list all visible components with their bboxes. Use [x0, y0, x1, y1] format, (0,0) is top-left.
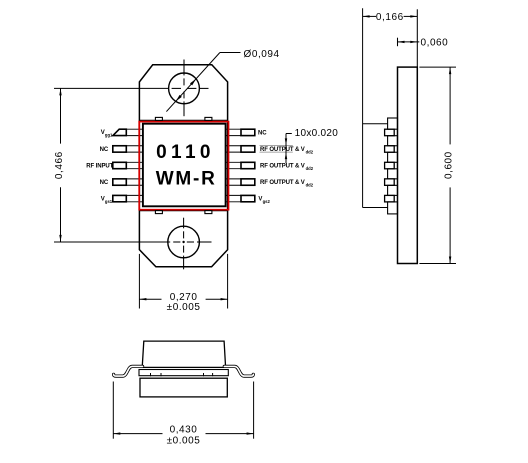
dimension 10x0.020 — [260, 145, 293, 152]
dimension 0,430 — [113, 382, 253, 439]
lid — [143, 124, 226, 207]
svg-text:0,060: 0,060 — [421, 38, 449, 49]
svg-text:0,430: 0,430 — [170, 424, 198, 435]
mounting hole bottom — [54, 218, 212, 270]
lead L1 (pin1, chamfered) — [126, 128, 143, 130]
ceramic sections — [388, 118, 398, 214]
svg-text:NC: NC — [100, 180, 109, 186]
package body outline (octagon flange) — [139, 65, 227, 267]
lid (trapezoid) — [142, 341, 225, 367]
wall ledge top line — [139, 119, 227, 121]
svg-text:gg1: gg1 — [105, 132, 113, 137]
lead R5 — [224, 194, 241, 196]
svg-text:dd2: dd2 — [306, 166, 314, 171]
lead L3 — [126, 161, 143, 163]
flange bottom view — [140, 378, 227, 397]
leads left side L1..L5 — [113, 129, 143, 202]
wall ledge bottom line — [139, 210, 227, 212]
dimension 0,600 — [419, 67, 456, 263]
svg-text:WM-R: WM-R — [156, 168, 217, 189]
svg-text:0110: 0110 — [156, 142, 215, 163]
dimension Ø0,094 leader — [166, 53, 240, 112]
gull-wing lead left — [114, 366, 143, 376]
lead R2 — [224, 145, 241, 147]
dimension 0,466 — [60, 88, 62, 242]
dimension 0,270 — [139, 254, 227, 309]
svg-text:0,466: 0,466 — [54, 151, 65, 179]
lead R4 — [224, 178, 241, 180]
svg-text:10x0.020: 10x0.020 — [295, 128, 339, 139]
svg-text:RF OUTPUT & V: RF OUTPUT & V — [260, 164, 305, 170]
side leads — [385, 129, 395, 202]
svg-text:Ø0,094: Ø0,094 — [244, 49, 280, 60]
svg-text:RF INPUT: RF INPUT — [86, 164, 113, 170]
svg-text:RF OUTPUT & V: RF OUTPUT & V — [260, 180, 305, 186]
gull-wing lead right — [224, 366, 253, 376]
lead R1 — [224, 128, 241, 130]
svg-text:gs1: gs1 — [105, 199, 113, 204]
svg-text:NC: NC — [258, 131, 267, 137]
svg-text:gs2: gs2 — [263, 199, 271, 204]
svg-text:0,600: 0,600 — [443, 151, 454, 179]
lead L5 — [126, 194, 143, 196]
svg-text:dd2: dd2 — [306, 182, 314, 187]
svg-text:±0.005: ±0.005 — [167, 302, 201, 313]
base plate — [139, 370, 228, 376]
flange body side — [398, 67, 418, 263]
lead L2 — [126, 145, 143, 147]
lid outline side — [363, 8, 388, 207]
lead R3 — [224, 161, 241, 163]
dimension 0,166 — [416, 9, 418, 67]
svg-text:0,166: 0,166 — [376, 12, 404, 23]
svg-text:dd2: dd2 — [306, 149, 314, 154]
svg-text:±0.005: ±0.005 — [167, 436, 201, 447]
dimension 0,060 — [397, 38, 399, 47]
svg-text:NC: NC — [100, 147, 109, 153]
plate ticks — [151, 373, 213, 376]
lead L4 — [126, 178, 143, 180]
seal ring (red) — [139, 122, 228, 210]
index tabs — [155, 117, 162, 120]
leads right side R1..R5 — [224, 129, 255, 202]
mounting hole top — [54, 60, 209, 117]
